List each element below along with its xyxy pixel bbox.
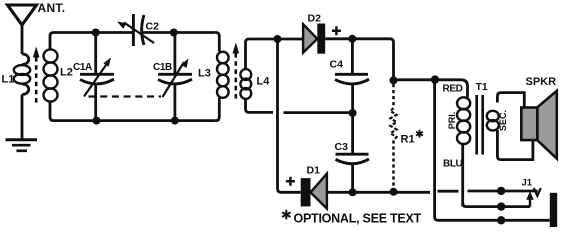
diode D1 — [301, 174, 327, 209]
svg-text:D2: D2 — [308, 13, 322, 25]
variable capacitor C2 — [117, 14, 154, 46]
junction R1 bottom — [390, 188, 398, 196]
wire BLU to jack arrow — [463, 203, 530, 207]
jack J1 body bar — [550, 193, 557, 227]
svg-text:OPTIONAL, SEE TEXT: OPTIONAL, SEE TEXT — [294, 212, 422, 226]
junction C1A bottom — [93, 117, 101, 125]
wire vertical L4-junction to D1 — [278, 39, 282, 192]
junction C1B top — [170, 29, 178, 37]
tank right side + inductor L3 — [216, 33, 229, 121]
wire D2 to corner — [325, 39, 393, 79]
wire L4 bottom — [249, 111, 273, 114]
label ANT. — [38, 1, 66, 15]
transformer T1 secondary — [487, 93, 501, 160]
resistor R1 dashed optional — [390, 84, 396, 188]
label C2 — [146, 21, 160, 33]
svg-text:J1: J1 — [522, 178, 533, 189]
wire L4 bottom to C3/C4 junction — [284, 111, 353, 114]
svg-text:SPKR: SPKR — [526, 76, 557, 88]
svg-text:PRI.: PRI. — [447, 112, 457, 130]
label SEC. — [498, 110, 508, 131]
svg-text:C2: C2 — [146, 21, 160, 33]
wire antenna to L1 — [21, 24, 24, 54]
junction bottom rail — [497, 216, 505, 224]
junction C1B bottom — [171, 117, 179, 125]
tank left corner + inductor L2 — [44, 33, 58, 121]
label L4 — [257, 76, 271, 88]
label D1 — [307, 165, 321, 177]
junction T1 red — [431, 75, 439, 83]
wire secondary bottom to speaker — [501, 141, 533, 160]
capacitor C3 — [336, 113, 370, 192]
speaker SPKR — [521, 91, 557, 159]
label C1A — [73, 62, 92, 73]
plus sign at D1 — [286, 177, 295, 186]
coupling arrow L3-L4 — [233, 43, 240, 101]
tank top wire — [54, 31, 216, 34]
svg-text:L3: L3 — [198, 68, 211, 80]
bottom wire D1 to R1 — [281, 191, 430, 194]
svg-text:C3: C3 — [335, 141, 349, 153]
wire T1 left vertical to bottom rail — [435, 80, 550, 221]
svg-text:L4: L4 — [257, 76, 271, 88]
svg-text:BLU: BLU — [443, 159, 463, 170]
bottom wire segment to jack — [468, 190, 538, 193]
inductor L4 loop left side — [240, 39, 251, 112]
jack J1 contact V — [534, 188, 541, 196]
wire L4 top to D2 — [249, 38, 303, 41]
label J1 — [522, 178, 533, 189]
antenna symbol — [8, 5, 37, 25]
junction R1 top — [390, 76, 398, 84]
svg-text:D1: D1 — [307, 165, 321, 177]
label L2 — [60, 67, 73, 79]
svg-text:L1: L1 — [2, 74, 15, 86]
ground — [6, 140, 38, 151]
plus sign at D2 — [332, 26, 341, 35]
svg-text:RED: RED — [443, 84, 463, 95]
note optional text — [282, 210, 421, 226]
variable capacitor C1A — [80, 33, 114, 121]
transformer T1 core — [477, 95, 483, 155]
label C1B — [153, 62, 172, 73]
label L3 — [198, 68, 211, 80]
gang link dashed C1A-C1B — [89, 95, 162, 97]
label R1* — [401, 130, 423, 146]
junction C4-C3 — [349, 109, 357, 117]
junction L4 top — [274, 35, 282, 43]
transformer T1 primary — [457, 97, 470, 206]
wire secondary top to speaker — [501, 93, 524, 108]
svg-text:T1: T1 — [476, 81, 488, 93]
label T1 — [476, 81, 488, 93]
svg-text:ANT.: ANT. — [38, 1, 66, 15]
svg-text:L2: L2 — [60, 67, 73, 79]
svg-text:C1B: C1B — [153, 62, 172, 73]
svg-text:C4: C4 — [330, 59, 344, 71]
tank bottom wire — [54, 119, 216, 122]
variable capacitor C1B — [158, 33, 192, 121]
wire L1 to ground — [21, 95, 24, 140]
svg-text:R1: R1 — [401, 134, 415, 146]
junction C3 bottom — [349, 188, 357, 196]
label RED — [443, 84, 463, 95]
svg-text:SEC.: SEC. — [498, 110, 508, 131]
coupling arrow L1-L2 — [33, 47, 40, 106]
inductor L1 — [14, 54, 30, 95]
label C3 — [335, 141, 349, 153]
label SPKR — [526, 76, 557, 88]
capacitor C4 — [335, 40, 369, 113]
junction bottom wire — [497, 187, 505, 195]
jack J1 arrow — [526, 191, 534, 206]
label L1 — [2, 74, 15, 86]
label BLU — [443, 159, 463, 170]
wire R1 top to T1 red — [394, 80, 468, 98]
label PRI. — [447, 112, 457, 130]
label C4 — [330, 59, 344, 71]
svg-text:C1A: C1A — [73, 62, 92, 73]
diode D2 — [303, 24, 325, 54]
junction C4 top — [348, 35, 356, 43]
junction wire2 — [497, 202, 505, 210]
junction C1A top — [92, 29, 100, 37]
label D2 — [308, 13, 322, 25]
bottom wire segment dashed crossing — [438, 190, 459, 193]
